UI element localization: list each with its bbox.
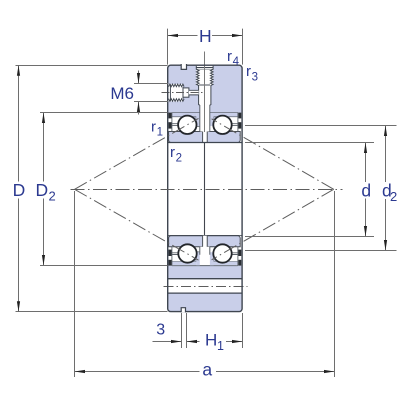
contact line lower-right diagonal bbox=[212, 189, 334, 259]
svg-text:M6: M6 bbox=[110, 84, 134, 103]
svg-text:2: 2 bbox=[49, 188, 56, 203]
svg-text:H: H bbox=[205, 331, 217, 350]
svg-text:2: 2 bbox=[390, 189, 397, 204]
svg-text:D: D bbox=[36, 180, 49, 200]
svg-text:d: d bbox=[361, 181, 371, 201]
bore band top edge bbox=[168, 142, 242, 144]
dimension D arrowheads bbox=[17, 65, 20, 76]
dimension d2 arrowheads bbox=[384, 126, 387, 137]
dimension M6 arrowheads bbox=[137, 73, 140, 84]
bore band bottom edge bbox=[168, 235, 242, 237]
vertical centerline of unit bbox=[204, 52, 206, 133]
dimension H1 line bbox=[187, 341, 243, 343]
dimension D2 extension lines bbox=[40, 113, 168, 266]
dimension D line bbox=[18, 66, 20, 312]
dimension d2 line bbox=[385, 126, 387, 251]
top-right seal bbox=[238, 113, 241, 132]
dimension d line bbox=[365, 143, 367, 237]
svg-text:3: 3 bbox=[156, 321, 165, 338]
horizontal lube hole centerline bbox=[162, 92, 205, 94]
ball bottom-right bbox=[213, 244, 231, 262]
left thread serration bbox=[196, 69, 199, 85]
top race band (white) bbox=[168, 113, 241, 143]
bearing unit housing body (blue section) bbox=[168, 65, 242, 311]
dimension 3 line bbox=[153, 341, 182, 343]
bore band (white) bbox=[168, 143, 241, 236]
dimension a extension lines bbox=[75, 191, 335, 377]
central axis centerline bbox=[71, 189, 343, 191]
bottom-left seal bbox=[169, 247, 172, 266]
mouth double line bbox=[169, 84, 171, 101]
top row raceway slot lines bbox=[170, 124, 179, 126]
tapped bore below thread bbox=[199, 85, 211, 105]
contact line upper-right diagonal bbox=[212, 119, 334, 190]
svg-text:r: r bbox=[227, 48, 232, 65]
top race band upper boundary bbox=[172, 112, 238, 114]
lube duct band centerline bbox=[164, 286, 248, 288]
unit joint line through bore bbox=[204, 143, 206, 236]
svg-text:a: a bbox=[202, 359, 212, 379]
dimension H1 arrowheads bbox=[187, 340, 198, 343]
ball top-left bbox=[178, 116, 196, 134]
top inner ring halves (blue) bbox=[169, 132, 241, 143]
dimension 3 extension lines (notch) bbox=[182, 313, 187, 348]
dimension d2 extension lines bbox=[245, 126, 397, 251]
svg-text:r: r bbox=[151, 118, 156, 135]
dimension D extension lines bbox=[16, 66, 168, 312]
top notch in housing bbox=[181, 64, 186, 69]
svg-text:1: 1 bbox=[157, 127, 163, 139]
contact line upper-left diagonal bbox=[75, 118, 199, 189]
left grease fitting: threaded horizontal hole M6 bbox=[169, 84, 199, 101]
top race shoulder steps bbox=[172, 112, 238, 126]
svg-text:2: 2 bbox=[176, 152, 182, 164]
svg-text:4: 4 bbox=[233, 56, 240, 68]
dimension D2 arrowheads bbox=[42, 113, 45, 124]
svg-text:3: 3 bbox=[252, 72, 258, 84]
land bbox=[183, 88, 189, 97]
bottom row raceway slot lines bbox=[170, 253, 179, 255]
bottom-right seal bbox=[238, 247, 241, 266]
ball bottom-left bbox=[178, 244, 196, 262]
bottom race band lower boundary bbox=[172, 265, 238, 267]
ball top-right bbox=[213, 116, 231, 134]
svg-text:r: r bbox=[170, 144, 175, 161]
bottom inner-ring joint gap bbox=[203, 236, 208, 247]
top-left seal bbox=[169, 113, 172, 132]
right thread serration bbox=[210, 69, 213, 85]
svg-text:1: 1 bbox=[217, 339, 224, 353]
dimension H1 extension line right bbox=[242, 313, 244, 348]
svg-text:D: D bbox=[13, 180, 26, 200]
bottom race band (white) bbox=[168, 236, 241, 266]
top grease fitting: threaded vertical hole M6 bbox=[196, 66, 213, 105]
top inner-ring joint gap bbox=[203, 132, 208, 143]
dimension d extension lines bbox=[245, 143, 374, 237]
dimension a line bbox=[75, 371, 335, 373]
bottom race shoulder steps bbox=[172, 252, 238, 266]
dimension d arrowheads bbox=[364, 143, 367, 154]
dimension H arrowheads bbox=[168, 34, 179, 37]
bottom pocket between balls bbox=[200, 247, 210, 255]
dimension H extension lines bbox=[168, 29, 243, 65]
svg-text:H: H bbox=[199, 26, 212, 46]
dimension 3 arrowhead bbox=[171, 340, 182, 343]
dimension D2 line bbox=[43, 113, 45, 266]
thread end bbox=[182, 87, 184, 99]
lower thread serration bbox=[169, 99, 185, 102]
unit outline bbox=[168, 65, 242, 311]
dimension M6 arrow lines bbox=[138, 71, 140, 115]
contact line lower-left diagonal bbox=[75, 189, 199, 260]
top lube channel between balls bbox=[200, 105, 210, 132]
upper thread serration bbox=[169, 84, 185, 87]
dimension M6 extension lines bbox=[134, 84, 168, 102]
lube duct band in bottom block (white) bbox=[168, 279, 241, 293]
bottom inner ring halves (blue) bbox=[169, 236, 241, 247]
svg-text:r: r bbox=[246, 63, 251, 80]
bottom notch in housing bbox=[181, 308, 185, 313]
neck channel to tee bbox=[189, 90, 199, 95]
dimension H line bbox=[168, 35, 243, 37]
dimension a arrowheads bbox=[75, 370, 86, 373]
